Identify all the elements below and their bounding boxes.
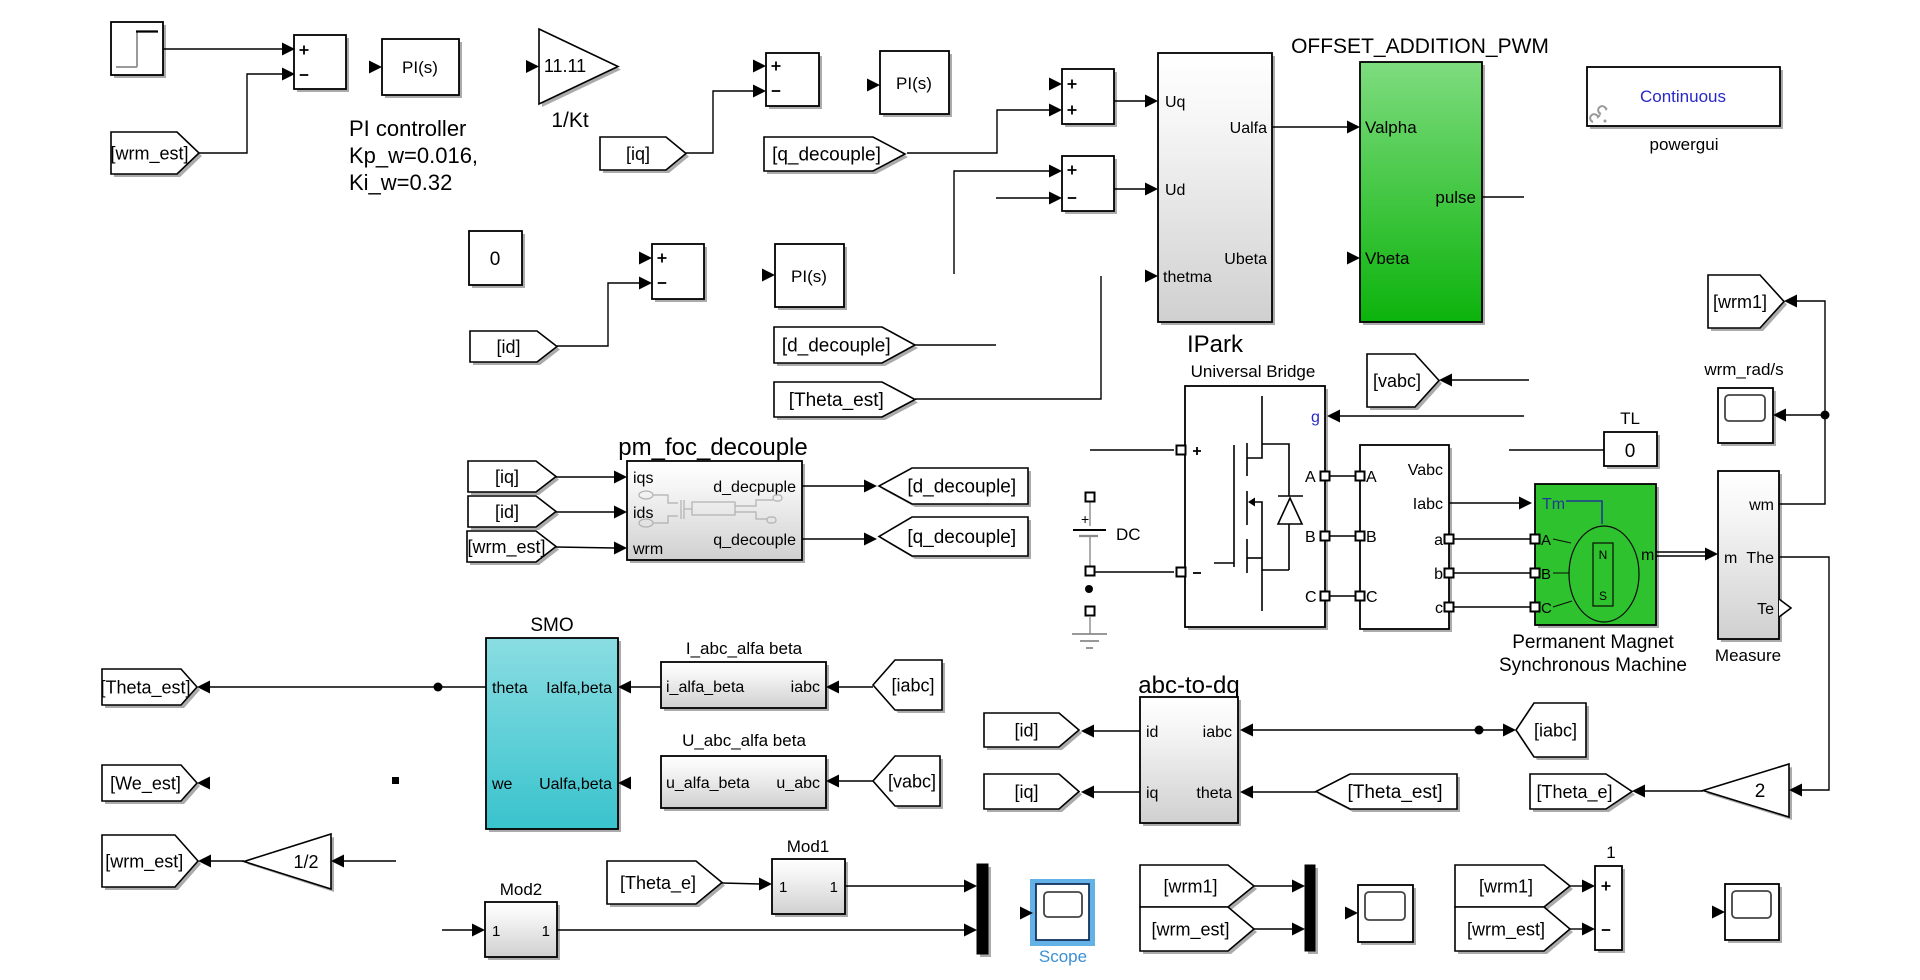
svg-text:wm: wm [1748, 497, 1774, 514]
svg-text:[Theta_e]: [Theta_e] [620, 873, 696, 894]
svg-text:q_decouple: q_decouple [713, 532, 796, 549]
svg-text:[iq]: [iq] [495, 467, 519, 487]
svg-text:2: 2 [1755, 781, 1766, 802]
svg-text:[Theta_est]: [Theta_est] [1347, 782, 1442, 803]
svg-text:[id]: [id] [496, 337, 520, 357]
svg-text:wrm: wrm [632, 541, 663, 558]
svg-text:[Theta_est]: [Theta_est] [100, 677, 190, 698]
svg-text:[We_est]: [We_est] [110, 773, 181, 794]
svg-text:[wrm1]: [wrm1] [1713, 292, 1767, 312]
svg-text:[iq]: [iq] [626, 144, 650, 164]
svg-text:0: 0 [490, 249, 501, 270]
svg-text:[wrm1]: [wrm1] [1164, 876, 1218, 896]
svg-text:PI controller: PI controller [349, 116, 466, 141]
svg-text:B: B [1305, 529, 1316, 546]
svg-text:1/Kt: 1/Kt [551, 109, 589, 132]
svg-text:Vabc: Vabc [1408, 462, 1443, 479]
svg-text:Kp_w=0.016,: Kp_w=0.016, [349, 143, 478, 168]
svg-text:Uq: Uq [1165, 94, 1185, 111]
svg-text:Continuous: Continuous [1640, 87, 1726, 106]
svg-text:pulse: pulse [1435, 188, 1476, 207]
svg-text:Ubeta: Ubeta [1224, 251, 1267, 268]
svg-text:PI(s): PI(s) [896, 74, 932, 93]
svg-text:SMO: SMO [530, 615, 573, 636]
svg-text:1: 1 [1606, 843, 1615, 862]
svg-text:[d_decouple]: [d_decouple] [782, 336, 891, 357]
svg-text:[wrm_est]: [wrm_est] [1151, 919, 1229, 940]
svg-text:IPark: IPark [1187, 331, 1244, 358]
svg-text:PI(s): PI(s) [791, 267, 827, 286]
svg-text:C: C [1541, 600, 1552, 617]
svg-text:Mod1: Mod1 [787, 837, 830, 856]
svg-text:Te: Te [1757, 601, 1774, 618]
svg-text:B: B [1541, 566, 1551, 583]
svg-text:DC: DC [1116, 525, 1141, 544]
svg-text:1/2: 1/2 [293, 852, 318, 872]
svg-text:m: m [1641, 547, 1654, 564]
svg-text:iabc: iabc [1203, 724, 1232, 741]
svg-text:OFFSET_ADDITION_PWM: OFFSET_ADDITION_PWM [1291, 35, 1549, 58]
svg-text:C: C [1366, 589, 1378, 606]
svg-text:S: S [1599, 589, 1607, 603]
svg-text:The: The [1746, 550, 1774, 567]
svg-text:theta: theta [492, 680, 528, 697]
svg-text:Universal Bridge: Universal Bridge [1191, 362, 1316, 381]
svg-text:U_abc_alfa beta: U_abc_alfa beta [682, 731, 806, 750]
svg-text:Ualfa: Ualfa [1230, 120, 1267, 137]
svg-text:Ualfa,beta: Ualfa,beta [539, 776, 612, 793]
svg-text:pm_foc_decouple: pm_foc_decouple [618, 434, 807, 461]
svg-text:theta: theta [1196, 785, 1232, 802]
svg-text:[vabc]: [vabc] [1373, 371, 1421, 391]
svg-text:[d_decouple]: [d_decouple] [907, 477, 1016, 498]
svg-text:[id]: [id] [495, 502, 519, 522]
svg-text:Valpha: Valpha [1365, 118, 1417, 137]
svg-text:[iq]: [iq] [1014, 782, 1038, 802]
svg-text:[wrm1]: [wrm1] [1479, 876, 1533, 896]
svg-text:thetma: thetma [1163, 269, 1212, 286]
svg-text:B: B [1366, 529, 1377, 546]
svg-text:[iabc]: [iabc] [1534, 720, 1577, 740]
svg-text:u_alfa_beta: u_alfa_beta [666, 775, 750, 792]
svg-text:[Theta_est]: [Theta_est] [789, 390, 884, 411]
svg-text:Permanent Magnet: Permanent Magnet [1512, 632, 1674, 653]
svg-text:iq: iq [1146, 785, 1158, 802]
svg-text:Ki_w=0.32: Ki_w=0.32 [349, 170, 452, 195]
svg-text:[wrm_est]: [wrm_est] [1467, 919, 1545, 940]
svg-text:g: g [1311, 409, 1320, 426]
svg-text:Vbeta: Vbeta [1365, 249, 1410, 268]
svg-text:1: 1 [779, 879, 787, 896]
svg-text:u_abc: u_abc [776, 775, 820, 792]
svg-text:A: A [1541, 532, 1551, 549]
svg-text:Ud: Ud [1165, 182, 1185, 199]
svg-text:iqs: iqs [633, 470, 653, 487]
svg-text:[wrm_est]: [wrm_est] [110, 143, 188, 164]
svg-text:[iabc]: [iabc] [891, 675, 934, 695]
svg-text:Scope: Scope [1039, 947, 1087, 966]
svg-text:[q_decouple]: [q_decouple] [772, 145, 881, 166]
svg-text:[id]: [id] [1014, 720, 1038, 740]
svg-text:iabc: iabc [791, 679, 820, 696]
svg-text:wrm_rad/s: wrm_rad/s [1703, 360, 1783, 379]
svg-text:m: m [1724, 550, 1737, 567]
svg-text:d_decpuple: d_decpuple [713, 479, 796, 496]
svg-text:[wrm_est]: [wrm_est] [467, 537, 545, 558]
svg-text:[Theta_e]: [Theta_e] [1536, 782, 1612, 803]
svg-text:Tm: Tm [1542, 496, 1565, 513]
svg-text:c: c [1435, 600, 1443, 617]
svg-text:A: A [1305, 469, 1316, 486]
svg-text:1: 1 [542, 923, 550, 940]
svg-text:PI(s): PI(s) [402, 58, 438, 77]
svg-text:a: a [1434, 532, 1443, 549]
svg-text:abc-to-dq: abc-to-dq [1138, 672, 1239, 699]
svg-text:C: C [1305, 589, 1317, 606]
svg-text:I_abc_alfa beta: I_abc_alfa beta [686, 639, 803, 658]
svg-text:i_alfa_beta: i_alfa_beta [666, 679, 744, 696]
svg-text:Mod2: Mod2 [500, 880, 543, 899]
svg-text:11.11: 11.11 [544, 56, 586, 76]
svg-text:1: 1 [830, 879, 838, 896]
svg-text:1: 1 [492, 923, 500, 940]
svg-text:Measure: Measure [1715, 646, 1781, 665]
svg-text:b: b [1434, 566, 1443, 583]
svg-text:+: + [1081, 511, 1089, 527]
svg-text:[wrm_est]: [wrm_est] [105, 851, 183, 872]
svg-text:powergui: powergui [1650, 135, 1719, 154]
svg-text:N: N [1599, 548, 1608, 562]
svg-text:id: id [1146, 724, 1158, 741]
svg-text:Synchronous Machine: Synchronous Machine [1499, 655, 1687, 676]
svg-text:0: 0 [1625, 441, 1636, 462]
svg-text:Ialfa,beta: Ialfa,beta [546, 680, 612, 697]
svg-text:[vabc]: [vabc] [888, 771, 936, 791]
svg-text:we: we [491, 776, 513, 793]
svg-text:[q_decouple]: [q_decouple] [907, 527, 1016, 548]
svg-text:TL: TL [1620, 409, 1640, 428]
svg-text:A: A [1366, 469, 1377, 486]
svg-text:Iabc: Iabc [1413, 496, 1443, 513]
